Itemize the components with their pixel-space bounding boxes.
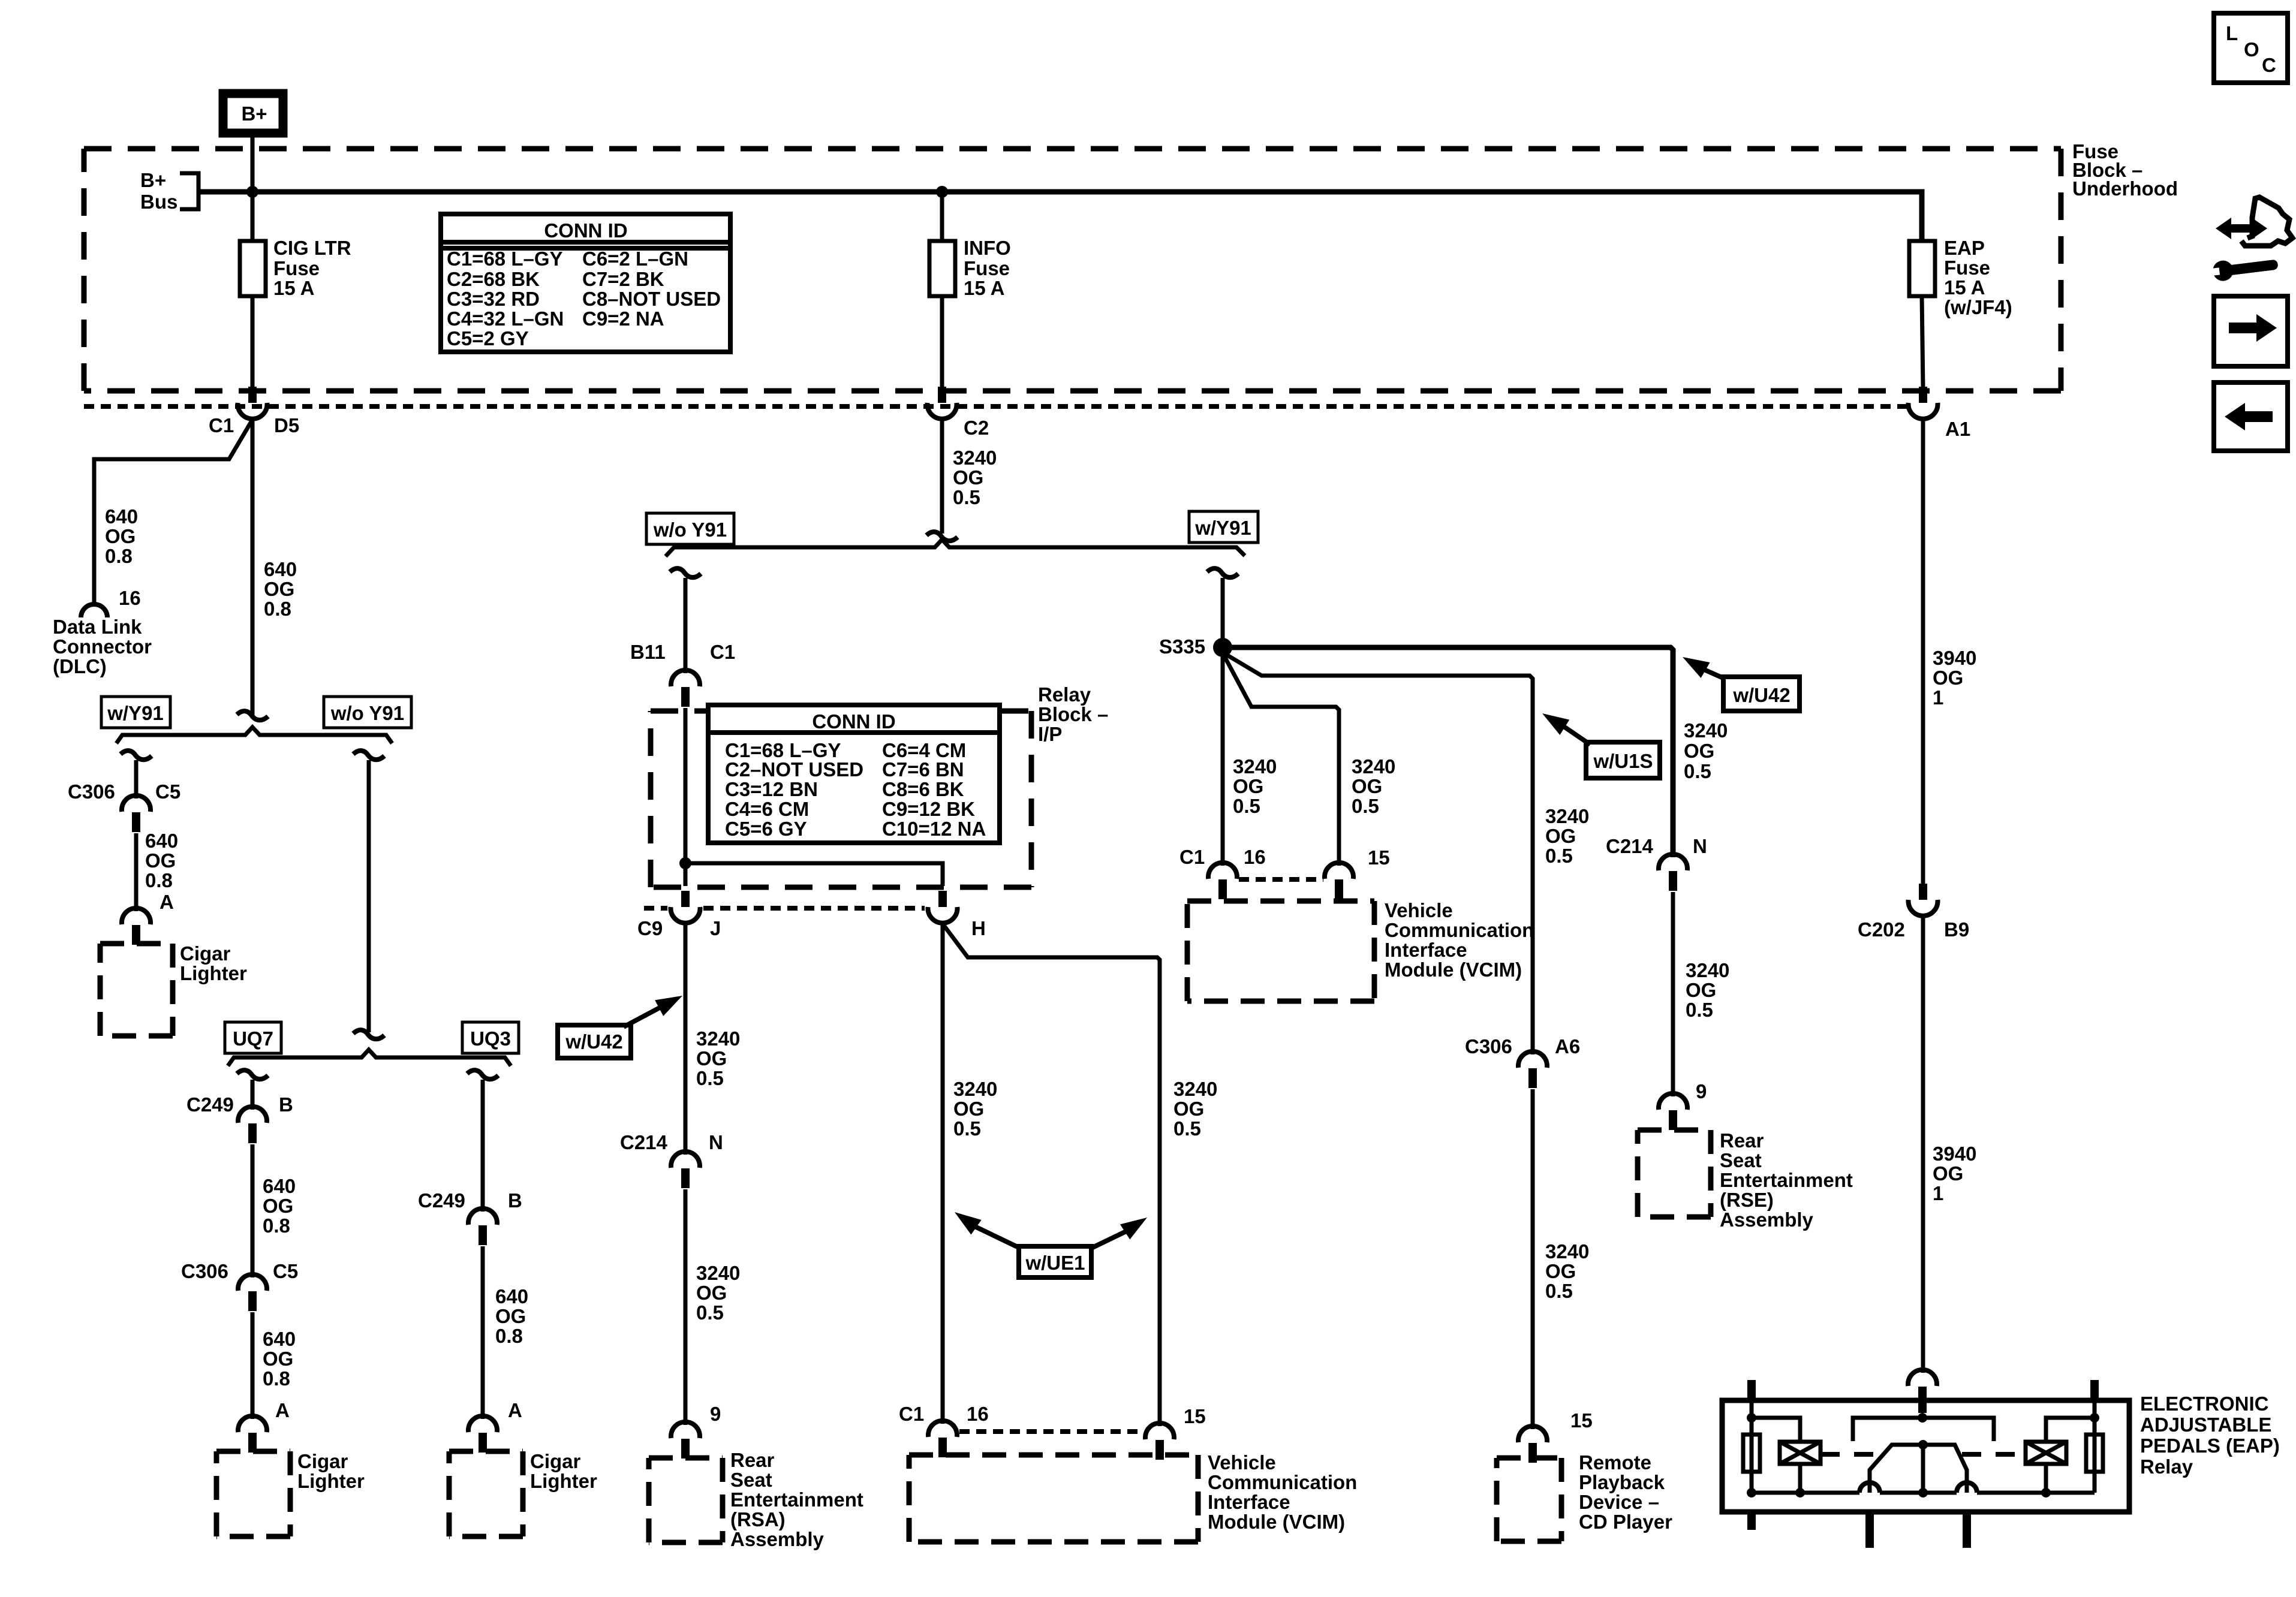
svg-text:0.5: 0.5 — [953, 1117, 981, 1140]
svg-text:D5: D5 — [274, 414, 299, 436]
contact post arc right — [1957, 1483, 1977, 1493]
connector C249 B left — [186, 1093, 293, 1143]
module Remote Playback Device CD Player — [1497, 1451, 1672, 1541]
svg-text:640: 640 — [263, 1328, 296, 1350]
wire relay right coil feed — [2046, 1418, 2095, 1493]
svg-text:ADJUSTABLE: ADJUSTABLE — [2140, 1414, 2271, 1436]
svg-text:B9: B9 — [1944, 918, 1969, 941]
svg-text:9: 9 — [1696, 1080, 1707, 1102]
wire relay center bracket arms — [1853, 1418, 1994, 1441]
wire 640 OG below C249 right — [481, 1246, 485, 1419]
svg-text:(DLC): (DLC) — [53, 655, 107, 677]
svg-text:I/P: I/P — [1038, 723, 1062, 745]
option pointer w/U42 right — [1678, 649, 1800, 711]
svg-text:Lighter: Lighter — [297, 1470, 365, 1492]
wire relay left coil feed — [1752, 1418, 1800, 1493]
module Rear Seat Entertainment RSE — [1638, 1129, 1853, 1231]
svg-text:0.8: 0.8 — [105, 545, 133, 567]
connector pin A cigar lighter 3 — [468, 1416, 497, 1453]
wire left branch to C306 — [134, 760, 139, 798]
svg-text:0.8: 0.8 — [145, 869, 173, 891]
svg-text:3240: 3240 — [953, 447, 997, 469]
svg-text:OG: OG — [263, 1195, 293, 1217]
wire 3940 OG to EAP relay — [1921, 917, 1925, 1373]
svg-text:C249: C249 — [418, 1189, 465, 1212]
option label w/o Y91 — [324, 697, 411, 728]
svg-text:C5: C5 — [155, 781, 180, 803]
svg-text:1: 1 — [1933, 1182, 1943, 1204]
node relay dot center top — [1918, 1413, 1927, 1423]
svg-text:C306: C306 — [1465, 1035, 1512, 1057]
svg-text:C2–NOT USED: C2–NOT USED — [725, 758, 863, 781]
svg-text:3240: 3240 — [1352, 755, 1395, 778]
option label w/Y91 center — [1189, 511, 1258, 543]
fuse INFO 15A — [929, 237, 1011, 299]
node relay dot left coil bottom — [1795, 1488, 1805, 1497]
icon arrow-right box — [2214, 296, 2288, 366]
table CONN ID fuse block — [441, 214, 730, 352]
svg-text:OG: OG — [1684, 740, 1714, 762]
svg-text:0.5: 0.5 — [1686, 999, 1713, 1021]
wire 640 OG below C249 left — [251, 1144, 255, 1277]
svg-text:Device –: Device – — [1579, 1491, 1659, 1513]
wire 3240 OG from C2 — [940, 420, 944, 534]
pin stub relay bottom center left — [1865, 1512, 1874, 1548]
svg-text:C1: C1 — [209, 414, 234, 436]
svg-text:O: O — [2244, 38, 2259, 61]
svg-text:CD Player: CD Player — [1579, 1511, 1672, 1533]
module Rear Seat Entertainment RSA — [649, 1449, 863, 1550]
node B+ Bus bracket — [140, 169, 216, 213]
dotted line between lower VCIM pins — [959, 1429, 1144, 1434]
mechanical linkage dashed — [1820, 1452, 2026, 1457]
fuse block underhood dashed box — [84, 149, 2061, 391]
svg-text:15 A: 15 A — [273, 277, 314, 299]
module Cigar Lighter 2 — [216, 1450, 365, 1536]
svg-text:3240: 3240 — [1545, 1240, 1589, 1262]
connector C202 B9 — [1858, 884, 1969, 941]
svg-text:0.5: 0.5 — [1173, 1117, 1201, 1140]
svg-text:0.5: 0.5 — [953, 486, 980, 508]
svg-text:C1=68 L–GY: C1=68 L–GY — [447, 248, 563, 270]
label 3240 OG 0.5 above RSE — [1686, 959, 1729, 1021]
wire H to lower VCIM pin 16 — [941, 924, 945, 1424]
svg-text:N: N — [1693, 835, 1707, 857]
label 3940 OG 1 upper — [1933, 647, 1976, 709]
svg-text:Seat: Seat — [730, 1469, 772, 1491]
pin 16 label DLC — [119, 587, 141, 609]
svg-text:B11: B11 — [630, 641, 666, 663]
wire S335 to upper VCIM pin 15 — [1224, 656, 1339, 866]
wire 640 OG branch to DLC — [94, 420, 252, 604]
svg-text:Playback: Playback — [1579, 1471, 1665, 1493]
svg-text:0.5: 0.5 — [1352, 795, 1379, 817]
label Data Link Connector (DLC) — [53, 616, 152, 677]
svg-text:PEDALS (EAP): PEDALS (EAP) — [2140, 1435, 2280, 1457]
svg-text:OG: OG — [953, 466, 983, 489]
connector C1 16 upper VCIM — [1179, 846, 1266, 899]
connector C2 — [928, 387, 989, 439]
svg-text:A: A — [508, 1399, 522, 1421]
wire UQ7 branch to C249 — [251, 1080, 255, 1110]
svg-text:3240: 3240 — [953, 1078, 997, 1100]
option label w/o Y91 center — [646, 513, 734, 544]
svg-text:Block –: Block – — [1038, 703, 1108, 725]
svg-text:S335: S335 — [1159, 635, 1205, 658]
svg-text:Lighter: Lighter — [180, 962, 247, 984]
svg-text:C9: C9 — [637, 917, 663, 939]
connector pin 15 CD player — [1518, 1409, 1593, 1463]
svg-text:0.5: 0.5 — [696, 1067, 724, 1089]
svg-text:OG: OG — [105, 525, 136, 547]
label 640 OG 0.8 DLC branch — [105, 505, 138, 567]
svg-text:(RSA): (RSA) — [730, 1508, 786, 1530]
svg-text:0.5: 0.5 — [1545, 1280, 1573, 1302]
svg-text:INFO: INFO — [964, 237, 1011, 259]
svg-text:Fuse: Fuse — [964, 257, 1010, 279]
svg-text:UQ3: UQ3 — [470, 1027, 511, 1050]
label 3240 OG 0.5 vcim15 — [1352, 755, 1395, 817]
svg-text:Connector: Connector — [53, 635, 152, 658]
svg-text:OG: OG — [696, 1282, 727, 1304]
svg-text:Bus: Bus — [140, 191, 177, 213]
svg-text:Relay: Relay — [2140, 1456, 2193, 1478]
fuse EAP 15A (w/JF4) — [1909, 237, 2012, 318]
splice hook UQ7 branch — [237, 1070, 268, 1079]
svg-text:OG: OG — [1352, 775, 1382, 797]
svg-text:C1: C1 — [899, 1403, 924, 1425]
svg-text:C1: C1 — [1179, 846, 1205, 868]
svg-text:ELECTRONIC: ELECTRONIC — [2140, 1393, 2269, 1415]
svg-text:C8=6 BK: C8=6 BK — [882, 778, 964, 800]
wire UQ3 branch to C249 right — [481, 1080, 485, 1212]
connector C9 J — [637, 891, 721, 939]
svg-text:C: C — [2262, 54, 2276, 76]
label 3940 OG 1 lower — [1933, 1143, 1976, 1204]
svg-text:Rear: Rear — [1720, 1129, 1764, 1152]
svg-text:B+: B+ — [241, 103, 267, 125]
module lower VCIM box — [909, 1451, 1357, 1542]
svg-text:640: 640 — [264, 558, 297, 580]
svg-text:B+: B+ — [140, 169, 166, 191]
splice hook above UQ split — [353, 1030, 384, 1039]
icon diagnostic flag and wrench — [2210, 197, 2292, 282]
svg-text:J: J — [710, 917, 721, 939]
svg-text:w/U42: w/U42 — [565, 1030, 622, 1053]
label 640 OG 0.8 A cigar1 — [145, 830, 178, 913]
svg-text:3240: 3240 — [696, 1027, 740, 1050]
splice hook above Y91 split — [926, 532, 958, 541]
svg-text:15: 15 — [1368, 846, 1390, 869]
svg-text:Assembly: Assembly — [1720, 1209, 1814, 1231]
svg-text:OG: OG — [1686, 979, 1716, 1001]
svg-text:C249: C249 — [186, 1093, 234, 1116]
svg-text:0.5: 0.5 — [1684, 760, 1711, 782]
label 3240 OG 0.5 above C214 right — [1684, 719, 1728, 782]
svg-text:Fuse: Fuse — [273, 257, 320, 279]
svg-text:Cigar: Cigar — [530, 1450, 581, 1472]
label 640 OG 0.8 right cigar — [495, 1285, 528, 1421]
pin stub relay bottom center right — [1963, 1512, 1971, 1548]
svg-text:Entertainment: Entertainment — [1720, 1169, 1853, 1191]
svg-text:C6=2 L–GN: C6=2 L–GN — [582, 248, 688, 270]
node relay dot left bottom — [1747, 1488, 1756, 1497]
svg-text:UQ7: UQ7 — [233, 1027, 273, 1050]
svg-text:3240: 3240 — [1684, 719, 1728, 742]
svg-text:OG: OG — [1545, 1260, 1576, 1282]
svg-text:Communication: Communication — [1385, 919, 1534, 941]
icon LOC box — [2214, 13, 2288, 83]
module Cigar Lighter 3 — [449, 1450, 597, 1536]
svg-text:C9=12 BK: C9=12 BK — [882, 798, 975, 820]
coil relay right — [2026, 1442, 2066, 1464]
svg-text:N: N — [709, 1131, 723, 1153]
icon arrow-left box — [2214, 382, 2288, 451]
svg-text:3240: 3240 — [696, 1262, 740, 1284]
svg-text:Interface: Interface — [1208, 1491, 1290, 1513]
label 3240 OG 0.5 under C2 — [953, 447, 997, 508]
wire to S335 — [1221, 578, 1225, 647]
svg-text:0.5: 0.5 — [1233, 795, 1260, 817]
connector 15 upper VCIM — [1325, 846, 1390, 899]
label 640 OG 0.8 main — [264, 558, 297, 620]
svg-text:Module (VCIM): Module (VCIM) — [1208, 1511, 1345, 1533]
svg-text:C214: C214 — [620, 1131, 668, 1153]
svg-text:CONN ID: CONN ID — [544, 219, 627, 242]
svg-text:9: 9 — [710, 1403, 721, 1425]
node junction dot relay block — [679, 857, 691, 869]
svg-text:C5=2 GY: C5=2 GY — [447, 327, 529, 349]
splice hook S335 branch — [1207, 568, 1238, 577]
svg-text:15 A: 15 A — [964, 277, 1004, 299]
svg-text:Data Link: Data Link — [53, 616, 142, 638]
svg-text:16: 16 — [1244, 846, 1266, 868]
option pointer w/UE1 — [949, 1205, 1152, 1277]
svg-text:640: 640 — [495, 1285, 528, 1307]
svg-text:EAP: EAP — [1944, 237, 1985, 259]
svg-text:A6: A6 — [1555, 1035, 1580, 1057]
svg-text:OG: OG — [953, 1098, 984, 1120]
svg-text:C2=68 BK: C2=68 BK — [447, 268, 540, 290]
module EAP relay box — [1722, 1400, 2129, 1512]
svg-text:3240: 3240 — [1686, 959, 1729, 981]
svg-text:A: A — [160, 891, 174, 913]
svg-text:0.5: 0.5 — [1545, 845, 1573, 867]
wire option split line Y91 — [116, 727, 392, 743]
svg-text:C4=32 L–GN: C4=32 L–GN — [447, 308, 564, 330]
svg-text:0.8: 0.8 — [263, 1367, 290, 1390]
svg-text:16: 16 — [119, 587, 141, 609]
connector 15 lower VCIM — [1145, 1405, 1206, 1460]
wire 640 OG from C1 D5 down — [251, 420, 255, 717]
svg-text:Relay: Relay — [1038, 683, 1091, 706]
connector C214 N right — [1606, 835, 1707, 891]
svg-text:Fuse: Fuse — [1944, 257, 1990, 279]
wire 640 OG to cigar lighter 2 — [251, 1312, 255, 1419]
svg-text:C214: C214 — [1606, 835, 1654, 857]
svg-text:w/Y91: w/Y91 — [1194, 517, 1251, 539]
wire relay right vertical — [2093, 1400, 2097, 1493]
wire 3240 OG to CD player — [1531, 1089, 1535, 1429]
svg-text:Cigar: Cigar — [297, 1450, 348, 1472]
connector pin A cigar lighter 1 — [122, 908, 151, 945]
wire right branch down to UQ split — [367, 760, 371, 1032]
label 3240 OG 0.5 wire15 — [1173, 1078, 1217, 1140]
label 3240 OG 0.5 above A6 — [1545, 805, 1589, 867]
svg-text:640: 640 — [263, 1175, 296, 1197]
svg-text:OG: OG — [264, 578, 294, 600]
svg-text:C3=32 RD: C3=32 RD — [447, 288, 540, 310]
svg-text:H: H — [971, 917, 986, 939]
svg-text:Vehicle: Vehicle — [1385, 899, 1453, 921]
svg-text:15 A: 15 A — [1944, 276, 1985, 299]
connector A1 — [1909, 387, 1971, 440]
svg-text:A: A — [275, 1399, 290, 1421]
svg-text:C1: C1 — [710, 641, 735, 663]
splice hook right branch to UQ split — [353, 751, 384, 760]
svg-text:OG: OG — [1233, 775, 1263, 797]
label 640 OG 0.8 below C249 left — [263, 1175, 296, 1237]
svg-text:3240: 3240 — [1173, 1078, 1217, 1100]
svg-text:CONN ID: CONN ID — [812, 710, 895, 733]
svg-text:3240: 3240 — [1233, 755, 1277, 778]
svg-text:3940: 3940 — [1933, 647, 1976, 669]
svg-text:C10=12 NA: C10=12 NA — [882, 818, 986, 840]
table CONN ID relay block — [708, 705, 1000, 843]
wire option split line UQ — [228, 1050, 511, 1066]
svg-text:OG: OG — [1933, 667, 1963, 689]
svg-text:C5: C5 — [273, 1260, 298, 1282]
pin stub relay top right — [2090, 1380, 2099, 1402]
svg-text:w/Y91: w/Y91 — [107, 702, 164, 724]
svg-text:0.5: 0.5 — [696, 1301, 724, 1324]
svg-text:L: L — [2226, 22, 2238, 44]
splice hook B11 branch — [670, 568, 701, 577]
wire inside relay block vertical — [684, 708, 688, 886]
wire option split line Y91 center — [666, 540, 1245, 556]
wire H to lower VCIM pin 15 — [943, 924, 1160, 1426]
svg-text:C202: C202 — [1858, 918, 1905, 941]
svg-text:C5=6 GY: C5=6 GY — [725, 818, 807, 840]
svg-text:C306: C306 — [181, 1260, 228, 1282]
label 640 OG 0.8 A cigar2 — [263, 1328, 296, 1421]
connector C214 N — [620, 1131, 723, 1188]
svg-text:Assembly: Assembly — [730, 1528, 824, 1550]
wire CIG LTR fuse to connector — [251, 296, 255, 388]
svg-text:640: 640 — [145, 830, 178, 852]
label 3240 OG 0.5 above CD — [1545, 1240, 1589, 1302]
svg-text:Interface: Interface — [1385, 939, 1467, 961]
node relay dot right top — [2090, 1413, 2099, 1423]
svg-text:C306: C306 — [68, 781, 115, 803]
svg-text:C3=12 BN: C3=12 BN — [725, 778, 818, 800]
wire relay block jumper to H — [685, 863, 943, 886]
splice hook wire end above split — [237, 711, 268, 720]
wire S335 to upper VCIM pin C1 16 — [1221, 647, 1225, 866]
svg-text:Lighter: Lighter — [530, 1470, 597, 1492]
svg-text:1: 1 — [1933, 686, 1943, 709]
svg-text:w/o Y91: w/o Y91 — [653, 519, 727, 541]
wire B+ bus horizontal — [198, 192, 1922, 241]
label Relay Block IP — [1038, 683, 1108, 745]
svg-text:C9=2 NA: C9=2 NA — [582, 308, 664, 330]
option label UQ3 — [462, 1022, 519, 1053]
svg-text:B: B — [279, 1093, 293, 1116]
svg-text:w/U1S: w/U1S — [1593, 750, 1653, 772]
wire 640 OG to cigar lighter A — [134, 833, 139, 911]
wire relay left vertical — [1750, 1400, 1754, 1493]
svg-text:3240: 3240 — [1545, 805, 1589, 827]
wire relay bottom rail — [1752, 1491, 2095, 1495]
svg-text:15: 15 — [1570, 1409, 1593, 1432]
label 3240 OG 0.5 vcim16 — [1233, 755, 1277, 817]
svg-text:0.8: 0.8 — [495, 1325, 523, 1347]
connector C306 A6 — [1465, 1035, 1580, 1088]
svg-text:640: 640 — [105, 505, 138, 528]
svg-text:w/UE1: w/UE1 — [1025, 1252, 1085, 1274]
svg-text:Module (VCIM): Module (VCIM) — [1385, 959, 1522, 981]
label 3240 OG 0.5 under C9 — [696, 1027, 740, 1089]
node junction dot at INFO fuse — [936, 186, 948, 198]
connector C1 16 lower VCIM — [899, 1403, 989, 1457]
dotted connector line under relay block — [644, 906, 925, 911]
wire INFO fuse top — [940, 192, 944, 241]
dotted harness boundary line — [84, 404, 1907, 409]
svg-text:B: B — [508, 1189, 522, 1212]
svg-text:Entertainment: Entertainment — [730, 1488, 863, 1511]
label 3240 OG 0.5 wire16 — [953, 1078, 997, 1140]
label 3240 OG 0.5 above RSA — [696, 1262, 740, 1324]
option label UQ7 — [225, 1022, 281, 1053]
dotted line between upper VCIM pins — [1239, 877, 1323, 882]
svg-text:A1: A1 — [1945, 418, 1970, 440]
svg-text:15: 15 — [1184, 1405, 1206, 1427]
wire 3240 OG to RSE pin 9 — [1671, 892, 1675, 1096]
wire 3240 OG from C9 J down — [684, 924, 688, 1155]
splice hook UQ3 branch — [467, 1070, 498, 1079]
node relay dot left top — [1747, 1413, 1756, 1423]
svg-text:16: 16 — [967, 1403, 989, 1425]
svg-text:OG: OG — [495, 1305, 526, 1327]
contact post arc left — [1859, 1483, 1880, 1493]
splice S335 — [1159, 635, 1232, 658]
svg-text:OG: OG — [263, 1348, 293, 1370]
connector C306 C5 lower — [181, 1260, 298, 1311]
connector C306 C5 left — [68, 781, 180, 832]
relay block IP dashed box — [651, 711, 1031, 887]
pin stub relay top left — [1747, 1380, 1756, 1402]
switch trapezoid contact arm — [1870, 1440, 1967, 1497]
svg-text:Vehicle: Vehicle — [1208, 1451, 1276, 1474]
svg-text:Cigar: Cigar — [180, 942, 231, 965]
connector pin 9 RSE — [1659, 1080, 1707, 1130]
svg-text:C4=6 CM: C4=6 CM — [725, 798, 809, 820]
node relay dot right coil bottom — [2041, 1488, 2051, 1497]
splice hook left branch — [121, 751, 152, 760]
svg-text:Seat: Seat — [1720, 1149, 1762, 1171]
svg-text:Remote: Remote — [1579, 1451, 1651, 1474]
fuse CIG LTR 15A — [240, 237, 351, 299]
wire EAP fuse to connector — [1922, 296, 1923, 388]
svg-text:OG: OG — [1545, 825, 1576, 847]
module upper VCIM box — [1187, 899, 1534, 1001]
wire 3940 OG from A1 — [1921, 420, 1925, 885]
connector B11 C1 relay block — [630, 641, 735, 707]
label ELECTRONIC ADJUSTABLE PEDALS (EAP) Relay — [2140, 1393, 2280, 1478]
connector pin 9 RSA — [671, 1403, 721, 1459]
connector H — [928, 891, 986, 939]
svg-text:Rear: Rear — [730, 1449, 775, 1471]
